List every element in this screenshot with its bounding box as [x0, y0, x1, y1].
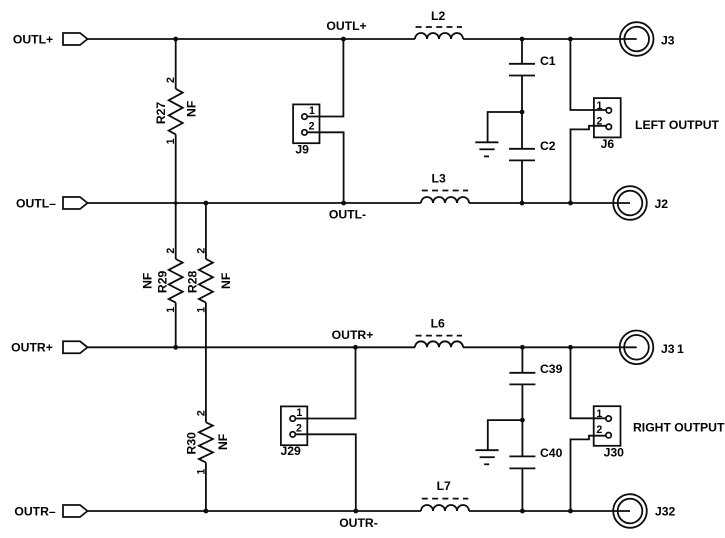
header J30: [594, 406, 621, 446]
svg-text:C40: C40: [540, 446, 563, 460]
junction OUTL-/C2: [520, 201, 525, 206]
svg-text:J9: J9: [295, 143, 309, 157]
svg-text:J29: J29: [281, 444, 302, 458]
svg-text:L2: L2: [431, 9, 445, 23]
svg-text:C1: C1: [540, 54, 556, 68]
wire OUTR+ rail: [88, 346, 416, 348]
svg-text:OUTR–: OUTR–: [14, 504, 56, 518]
svg-text:J3: J3: [661, 34, 675, 48]
resistor R28: [199, 259, 213, 303]
svg-text:2: 2: [296, 423, 302, 435]
junction OUTL-/J9: [341, 201, 346, 206]
inductor L7: [421, 505, 469, 511]
svg-text:NF: NF: [216, 434, 230, 450]
pin 2 of J9: [302, 130, 307, 135]
junction OUTR+/J29: [353, 345, 358, 350]
junction OUTR+/C39: [520, 345, 525, 350]
wire OUTL+ rail: [88, 38, 416, 40]
svg-text:J6: J6: [601, 137, 615, 151]
svg-text:R27: R27: [154, 102, 168, 125]
pin 1 of J30: [606, 416, 611, 421]
junction OUTL-/R27-R29: [174, 201, 178, 205]
ground (right channel): [476, 449, 499, 451]
svg-text:R30: R30: [184, 432, 198, 455]
pin 2 of J6: [606, 124, 611, 129]
junction OUTL-/R28: [204, 201, 209, 206]
resistor R30: [199, 422, 213, 462]
wire J6 pin2 to OUTL-: [571, 126, 607, 203]
wire C1 to C2: [521, 76, 523, 149]
svg-text:OUTR-: OUTR-: [339, 516, 378, 530]
port OUTL+: [63, 33, 88, 45]
junction OUTR+/R29: [173, 345, 178, 350]
wire R28 top lead: [205, 203, 207, 259]
wire C2 bottom lead: [521, 160, 523, 203]
capacitor C40: [509, 455, 535, 457]
capacitor C2: [509, 148, 535, 150]
capacitor C1: [509, 63, 535, 65]
junction OUTL+/R27: [173, 37, 178, 42]
wire J9 pin1 to OUTL+: [307, 39, 343, 117]
svg-text:2: 2: [596, 424, 602, 436]
wire ground branch left: [488, 112, 522, 142]
junction OUTL+/J9: [341, 37, 346, 42]
svg-text:RIGHT OUTPUT: RIGHT OUTPUT: [633, 420, 725, 434]
port OUTR+: [63, 341, 88, 353]
svg-text:J32: J32: [655, 505, 676, 519]
wire OUTL- rail: [88, 202, 422, 204]
jumper J9: [293, 104, 319, 143]
svg-text:OUTR+: OUTR+: [332, 328, 374, 342]
wire C1 top lead: [521, 39, 523, 64]
svg-text:2: 2: [195, 248, 207, 254]
svg-text:OUTL+: OUTL+: [326, 19, 366, 33]
svg-text:R28: R28: [186, 271, 200, 294]
svg-text:C2: C2: [540, 139, 556, 153]
svg-text:1: 1: [596, 408, 602, 420]
inductor L6: [415, 341, 463, 347]
wire J30 pin1 to OUTR+: [571, 347, 607, 418]
svg-text:C39: C39: [540, 362, 563, 376]
svg-text:OUTL–: OUTL–: [16, 196, 56, 210]
wire R29 top lead: [175, 203, 177, 259]
svg-text:2: 2: [597, 116, 603, 128]
wire C40 bottom lead: [521, 468, 523, 511]
wire J9 pin2 to OUTL-: [307, 132, 344, 203]
svg-text:L7: L7: [437, 479, 451, 493]
svg-text:L6: L6: [431, 317, 445, 331]
wire J30 pin2 to OUTR-: [571, 436, 607, 511]
capacitor C39: [509, 372, 535, 374]
wire C39 to C40: [521, 384, 523, 456]
wire C39 top lead: [521, 347, 523, 373]
wire R29 bottom lead: [175, 303, 177, 348]
wire R27 top lead: [175, 39, 177, 89]
connector J32: [613, 494, 647, 528]
junction OUTR-/J30: [568, 509, 573, 514]
connector J3: [620, 22, 654, 56]
junction OUTR-/J29: [353, 509, 358, 514]
svg-text:J3 1: J3 1: [661, 342, 684, 356]
svg-text:LEFT OUTPUT: LEFT OUTPUT: [635, 118, 720, 132]
wire ground branch left (right channel): [488, 420, 523, 450]
wire J29 pin2 to OUTR-: [295, 434, 356, 511]
junction C39-C40/ground: [520, 418, 525, 423]
junction OUTR-/R30: [204, 509, 209, 514]
svg-text:1: 1: [597, 100, 603, 112]
svg-text:NF: NF: [219, 273, 233, 289]
wire R27 bottom lead: [175, 134, 177, 203]
ground: [475, 141, 498, 143]
svg-text:2: 2: [165, 77, 177, 83]
svg-text:R29: R29: [156, 271, 170, 294]
svg-text:1: 1: [309, 105, 315, 117]
junction OUTR-/C40: [520, 509, 525, 514]
svg-text:2: 2: [195, 410, 207, 416]
pin 1 of J6: [606, 108, 611, 113]
pin 1 of J9: [302, 114, 307, 119]
header J6: [594, 98, 621, 137]
connector J2: [613, 186, 647, 220]
junction OUTL+/C1: [520, 37, 525, 42]
pin 1 of J29: [290, 416, 295, 421]
svg-text:J2: J2: [655, 197, 669, 211]
resistor R27: [169, 89, 183, 135]
svg-text:L3: L3: [432, 172, 446, 186]
inductor L3: [421, 197, 469, 203]
svg-text:NF: NF: [185, 101, 199, 117]
port OUTR-: [63, 505, 88, 517]
wire R30 bottom lead: [205, 462, 207, 511]
junction OUTR+/J30: [568, 345, 573, 350]
jumper J29: [281, 406, 307, 445]
svg-text:OUTR+: OUTR+: [11, 341, 53, 355]
port OUTL-: [63, 197, 88, 209]
svg-text:J30: J30: [604, 445, 625, 459]
svg-text:OUTL-: OUTL-: [329, 208, 366, 222]
wire OUTR- rail: [88, 510, 422, 512]
pin 2 of J29: [290, 432, 295, 437]
connector J31: [620, 331, 654, 365]
wire R28-R30 link crossing OUTR+: [205, 303, 207, 423]
wire J6 pin1 to OUTL+: [570, 39, 606, 110]
junction OUTL-/J6: [568, 201, 573, 206]
wire J29 pin1 to OUTR+: [295, 347, 356, 418]
svg-text:NF: NF: [141, 273, 155, 289]
svg-text:OUTL+: OUTL+: [13, 32, 53, 46]
junction C1-C2/ground: [520, 110, 525, 115]
svg-text:2: 2: [165, 248, 177, 254]
pin 2 of J30: [606, 433, 611, 438]
svg-text:2: 2: [309, 121, 315, 133]
inductor L2: [415, 33, 463, 39]
resistor R29: [169, 259, 183, 303]
svg-text:1: 1: [296, 407, 302, 419]
junction OUTL+/J6: [568, 37, 573, 42]
